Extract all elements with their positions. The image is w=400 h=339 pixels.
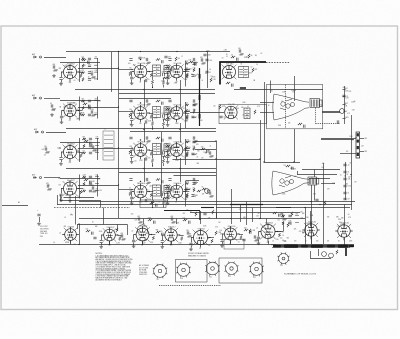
capacitor C10 bbox=[92, 145, 94, 148]
capacitor C54 bbox=[192, 104, 195, 106]
resistor R132 bbox=[150, 202, 154, 204]
svg-text:120: 120 bbox=[284, 165, 287, 167]
wire bbox=[163, 85, 165, 88]
svg-text:100: 100 bbox=[129, 109, 132, 111]
heavy bus segment bbox=[164, 210, 200, 212]
svg-text:.01: .01 bbox=[348, 214, 350, 216]
svg-text:05: 05 bbox=[64, 217, 66, 219]
resistor R4 bbox=[47, 188, 52, 190]
vacuum tube V11 (6AU6) bbox=[132, 183, 150, 201]
resistor R44 bbox=[150, 115, 152, 119]
ground bbox=[130, 123, 134, 126]
wire bbox=[133, 235, 135, 240]
wire bbox=[322, 112, 340, 114]
junction bbox=[304, 207, 305, 208]
wire tuner rail bbox=[60, 100, 100, 102]
junction bbox=[168, 69, 169, 70]
wire bbox=[119, 98, 171, 100]
capacitor C51 bbox=[161, 102, 163, 105]
wire bbox=[185, 181, 187, 207]
wire bbox=[322, 111, 340, 113]
svg-text:05: 05 bbox=[226, 56, 228, 58]
svg-text:68K: 68K bbox=[351, 139, 354, 141]
wire bbox=[310, 251, 312, 258]
svg-text:100: 100 bbox=[294, 176, 297, 178]
vacuum tube V12 (6AU6) bbox=[168, 183, 186, 201]
wire bbox=[54, 207, 130, 209]
wire bbox=[216, 159, 260, 161]
wire bbox=[318, 249, 320, 256]
svg-text:56: 56 bbox=[226, 54, 228, 56]
junction bbox=[78, 71, 79, 72]
coil L3 bbox=[94, 71, 98, 74]
resistor R87 bbox=[189, 61, 193, 63]
wire bbox=[184, 111, 190, 113]
capacitor C132 bbox=[37, 214, 40, 216]
junction bbox=[149, 191, 150, 192]
wire bbox=[75, 89, 215, 91]
wire bbox=[184, 148, 190, 150]
wire bbox=[152, 163, 154, 166]
wire tuner bus bbox=[79, 138, 81, 162]
resistor R14 bbox=[79, 112, 81, 116]
wire bbox=[66, 51, 230, 53]
ground bbox=[130, 82, 134, 85]
svg-text:220K: 220K bbox=[154, 118, 157, 120]
capacitor C108 bbox=[288, 222, 291, 224]
svg-text:V8: V8 bbox=[174, 105, 176, 107]
wire bbox=[131, 192, 133, 197]
resistor R109 bbox=[324, 201, 326, 205]
capacitor C80 bbox=[192, 183, 195, 185]
capacitor C27 bbox=[89, 176, 92, 178]
svg-text:.047: .047 bbox=[143, 243, 146, 245]
capacitor C7 bbox=[88, 105, 90, 108]
capacitor C94 bbox=[209, 151, 211, 154]
CRT1 base with pins bbox=[310, 99, 322, 108]
svg-text:47K: 47K bbox=[178, 72, 181, 74]
wire tuner rail bbox=[60, 178, 100, 180]
svg-text:47K: 47K bbox=[347, 113, 350, 115]
coil L24 bbox=[185, 147, 189, 150]
wire bbox=[283, 222, 285, 232]
capacitor C129 bbox=[188, 221, 190, 224]
junction bbox=[185, 112, 186, 113]
resistor R52 bbox=[162, 122, 164, 126]
capacitor C93 bbox=[206, 150, 208, 153]
svg-text:.01: .01 bbox=[207, 238, 209, 240]
resistor R38 bbox=[162, 80, 164, 85]
capacitor C66 bbox=[193, 136, 195, 139]
svg-text:470: 470 bbox=[349, 91, 352, 93]
capacitor C118 bbox=[132, 240, 135, 242]
wire bbox=[162, 243, 164, 245]
resistor R110 bbox=[86, 230, 90, 232]
svg-text:.01: .01 bbox=[97, 149, 99, 151]
wire bbox=[173, 159, 217, 161]
capacitor C86 bbox=[205, 59, 208, 61]
svg-text:.047: .047 bbox=[98, 178, 101, 180]
ground bbox=[50, 113, 54, 116]
svg-text:14KV: 14KV bbox=[345, 117, 349, 119]
svg-text:3.3K: 3.3K bbox=[244, 75, 247, 77]
svg-text:56: 56 bbox=[92, 221, 94, 223]
IF transformer T1B bbox=[164, 65, 169, 73]
ground bbox=[59, 162, 63, 165]
svg-text:V5: V5 bbox=[138, 63, 140, 65]
svg-text:56: 56 bbox=[256, 64, 258, 66]
junction bbox=[277, 231, 278, 232]
svg-text:470: 470 bbox=[268, 237, 271, 239]
wire tuner bus bbox=[79, 175, 81, 199]
pilot lamp I2 bbox=[329, 253, 334, 258]
heavy shielded lead (thick wire) bbox=[220, 62, 266, 85]
junction bbox=[179, 89, 180, 90]
capacitor C16 bbox=[59, 194, 62, 196]
resistor R103 bbox=[286, 165, 290, 167]
capacitor C48 bbox=[145, 120, 147, 123]
junction bbox=[170, 244, 171, 245]
junction bbox=[140, 59, 141, 60]
svg-text:56: 56 bbox=[348, 172, 350, 174]
resistor R117 bbox=[119, 237, 121, 241]
svg-text:150K: 150K bbox=[65, 195, 69, 197]
capacitor C84 bbox=[194, 63, 196, 66]
svg-text:.005: .005 bbox=[149, 185, 152, 187]
svg-text:V20: V20 bbox=[228, 226, 231, 228]
wire bbox=[61, 160, 63, 162]
resistor R88 bbox=[201, 62, 206, 64]
svg-text:10K: 10K bbox=[301, 217, 304, 219]
capacitor C89 bbox=[239, 49, 241, 52]
capacitor C95 bbox=[207, 190, 209, 193]
capacitor C87 bbox=[205, 71, 208, 73]
svg-text:3.3K: 3.3K bbox=[98, 101, 101, 103]
resistor R62 bbox=[166, 145, 170, 147]
svg-text:100: 100 bbox=[83, 101, 86, 103]
resistor R97 bbox=[201, 148, 205, 150]
svg-text:V17: V17 bbox=[140, 226, 143, 228]
svg-text:470: 470 bbox=[226, 78, 229, 80]
wire bbox=[149, 113, 153, 115]
resistor R50 bbox=[129, 113, 131, 117]
junction bbox=[118, 147, 119, 148]
vacuum tube V14 (6T8) bbox=[224, 105, 238, 119]
svg-text:05: 05 bbox=[88, 105, 90, 107]
svg-text:3.3K: 3.3K bbox=[348, 179, 351, 181]
ground bbox=[189, 248, 193, 251]
resistor R116 bbox=[287, 223, 289, 227]
resistor R89 bbox=[252, 68, 254, 72]
bus blob bbox=[301, 245, 308, 247]
svg-text:100: 100 bbox=[128, 63, 131, 65]
resistor R91 bbox=[239, 53, 244, 55]
svg-text:6BQ7: 6BQ7 bbox=[71, 63, 75, 65]
svg-text:56: 56 bbox=[338, 241, 340, 243]
svg-text:68K: 68K bbox=[83, 65, 86, 67]
svg-text:6W4: 6W4 bbox=[201, 228, 204, 230]
svg-text:05: 05 bbox=[209, 72, 211, 74]
resistor R7 bbox=[83, 103, 87, 105]
svg-text:10K: 10K bbox=[288, 123, 291, 125]
resistor R45 bbox=[186, 115, 188, 119]
wire bbox=[64, 197, 95, 199]
pilot lamp I1 bbox=[322, 252, 327, 257]
svg-text:.005: .005 bbox=[120, 233, 123, 235]
resistor R3 bbox=[45, 151, 50, 153]
svg-text:33K: 33K bbox=[306, 217, 309, 219]
capacitor C70 bbox=[166, 197, 169, 199]
wire tuner rail bbox=[60, 62, 100, 64]
svg-text:.02: .02 bbox=[223, 117, 225, 119]
wire bbox=[163, 205, 165, 208]
svg-text:10K: 10K bbox=[193, 146, 196, 148]
svg-text:.01: .01 bbox=[340, 174, 342, 176]
resistor R114 bbox=[215, 231, 217, 235]
wire bbox=[264, 82, 266, 162]
cable blob bbox=[199, 74, 201, 79]
capacitor C33 bbox=[171, 68, 173, 71]
capacitor C102 bbox=[343, 171, 346, 173]
svg-text:68K: 68K bbox=[83, 136, 86, 138]
svg-text:.02: .02 bbox=[231, 54, 233, 56]
vacuum tube V2 (6BZ7) bbox=[62, 103, 79, 120]
junction bbox=[185, 71, 186, 72]
svg-text:.02: .02 bbox=[247, 106, 249, 108]
heavy lead near V19 bbox=[199, 211, 201, 220]
resistor R93 bbox=[231, 56, 235, 58]
svg-text:6T8: 6T8 bbox=[232, 104, 235, 106]
resistor R54 bbox=[156, 100, 160, 102]
capacitor C109 bbox=[278, 214, 280, 217]
heavy rail segment bbox=[201, 207, 214, 209]
capacitor C79 bbox=[193, 178, 195, 181]
resistor R84 bbox=[185, 182, 189, 184]
capacitor C121 bbox=[220, 240, 223, 242]
resistor R122 bbox=[278, 233, 280, 237]
svg-text:V19: V19 bbox=[198, 228, 201, 230]
capacitor C88 bbox=[231, 84, 233, 87]
svg-text:3.3K: 3.3K bbox=[289, 220, 292, 222]
svg-text:.005: .005 bbox=[270, 232, 273, 234]
svg-text:56: 56 bbox=[53, 242, 55, 244]
svg-text:68K: 68K bbox=[336, 217, 339, 219]
resistor R124 bbox=[254, 239, 259, 241]
damper circuit box bbox=[224, 240, 244, 250]
wire bbox=[61, 72, 63, 77]
junction bbox=[149, 149, 150, 150]
junction bbox=[118, 67, 119, 68]
wire bbox=[258, 232, 260, 237]
resistor R133 bbox=[336, 250, 338, 254]
wire bbox=[44, 57, 66, 59]
resistor R26 bbox=[82, 152, 86, 154]
svg-text:.01: .01 bbox=[272, 241, 274, 243]
svg-text:6SL7: 6SL7 bbox=[172, 227, 176, 229]
junction bbox=[140, 181, 141, 182]
resistor R60 bbox=[167, 153, 169, 157]
svg-text:10K: 10K bbox=[327, 217, 330, 219]
svg-text:R82: R82 bbox=[365, 151, 368, 153]
heavy bus segment bbox=[230, 204, 263, 206]
svg-text:68K: 68K bbox=[313, 194, 316, 196]
resistor R107 bbox=[282, 218, 287, 220]
svg-text:33K: 33K bbox=[64, 226, 67, 228]
wire bbox=[61, 197, 63, 199]
terminal strip TS1 bbox=[356, 132, 360, 158]
coil L16 bbox=[185, 68, 189, 71]
svg-text:3.3K: 3.3K bbox=[150, 242, 153, 244]
wire bbox=[119, 189, 134, 191]
svg-text:47K: 47K bbox=[348, 217, 351, 219]
svg-text:56: 56 bbox=[172, 234, 174, 236]
ground bbox=[59, 199, 63, 202]
capacitor C90 bbox=[236, 58, 238, 61]
svg-text:6K6: 6K6 bbox=[71, 227, 74, 229]
wire bbox=[61, 189, 63, 194]
wire bbox=[119, 111, 134, 113]
wire bbox=[60, 195, 62, 200]
capacitor C110 bbox=[282, 214, 284, 217]
wire bbox=[309, 178, 330, 180]
capacitor C127 bbox=[153, 221, 155, 224]
capacitor C67 bbox=[192, 141, 195, 143]
capacitor C92 bbox=[219, 116, 222, 118]
resistor R33 bbox=[163, 77, 167, 79]
wire bbox=[152, 197, 154, 200]
capacitor C77 bbox=[161, 180, 163, 183]
junction bbox=[319, 204, 320, 205]
svg-text:V23: V23 bbox=[280, 265, 283, 267]
svg-text:33K: 33K bbox=[197, 150, 200, 152]
capacitor C64 bbox=[161, 139, 163, 142]
wire bbox=[111, 52, 113, 92]
ground bbox=[59, 82, 63, 85]
svg-text:6CB6: 6CB6 bbox=[177, 63, 181, 65]
svg-text:56: 56 bbox=[271, 91, 273, 93]
svg-text:33K: 33K bbox=[59, 68, 62, 70]
coil L11 bbox=[95, 175, 99, 178]
svg-text:56: 56 bbox=[163, 118, 165, 120]
resistor R21 bbox=[81, 100, 85, 102]
coil L32 bbox=[295, 214, 299, 217]
wire bbox=[185, 150, 189, 152]
vacuum tube V18 (6SL7) bbox=[162, 227, 179, 244]
svg-text:220K: 220K bbox=[186, 181, 189, 183]
vacuum tube V23 (5U4G) bbox=[335, 223, 352, 240]
junction bbox=[215, 158, 216, 159]
ground bbox=[257, 242, 261, 245]
resistor R121 bbox=[240, 236, 242, 240]
resistor R111 bbox=[121, 238, 126, 240]
svg-text:470: 470 bbox=[346, 151, 349, 153]
resistor R36 bbox=[129, 71, 131, 76]
svg-text:.01: .01 bbox=[77, 109, 79, 111]
svg-text:6CD6: 6CD6 bbox=[231, 226, 235, 228]
wire bbox=[66, 128, 216, 130]
resistor R120 bbox=[211, 239, 213, 243]
video amplifier enclosure box bbox=[219, 105, 267, 124]
capacitor C18 bbox=[88, 65, 91, 67]
svg-text:150K: 150K bbox=[186, 142, 189, 144]
resistor R2 bbox=[51, 108, 56, 110]
wire bbox=[131, 80, 133, 82]
capacitor C22 bbox=[88, 107, 91, 109]
wire bbox=[260, 112, 274, 114]
resistor R31 bbox=[186, 73, 188, 77]
IF transformer T3B bbox=[164, 144, 169, 152]
svg-text:10K: 10K bbox=[129, 146, 132, 148]
svg-text:.005: .005 bbox=[170, 216, 173, 218]
svg-text:V18: V18 bbox=[180, 278, 183, 280]
resistor R72 bbox=[150, 193, 152, 197]
vacuum tube V21 (6BQ6) bbox=[259, 223, 278, 242]
wire bbox=[185, 102, 187, 128]
svg-text:3.3K: 3.3K bbox=[175, 146, 178, 148]
svg-text:100: 100 bbox=[95, 112, 98, 114]
svg-text:56: 56 bbox=[241, 64, 243, 66]
wire bbox=[343, 96, 346, 98]
wire cathode return bbox=[268, 241, 270, 245]
svg-text:56: 56 bbox=[251, 55, 253, 57]
svg-text:L1: L1 bbox=[104, 129, 106, 131]
wire bbox=[119, 69, 134, 71]
svg-text:470: 470 bbox=[294, 241, 297, 243]
wire bbox=[264, 162, 300, 164]
svg-text:56: 56 bbox=[158, 202, 160, 204]
svg-text:33K: 33K bbox=[341, 218, 344, 220]
wire bbox=[344, 86, 346, 124]
capacitor C56 bbox=[130, 156, 133, 158]
svg-text:33K: 33K bbox=[137, 232, 140, 234]
ground bbox=[161, 245, 165, 248]
coil L13 bbox=[95, 189, 99, 192]
svg-text:10K: 10K bbox=[174, 116, 177, 118]
capacitor C73 bbox=[191, 195, 194, 197]
svg-text:100: 100 bbox=[238, 48, 241, 50]
svg-text:V18: V18 bbox=[168, 227, 171, 229]
capacitor C91 bbox=[203, 54, 206, 56]
junction bbox=[215, 140, 216, 141]
svg-text:150K: 150K bbox=[349, 136, 352, 138]
coil L28 bbox=[185, 188, 189, 191]
capacitor C122 bbox=[257, 237, 260, 239]
wire tuner bus bbox=[79, 58, 81, 82]
resistor R64 bbox=[129, 150, 131, 154]
resistor R42 bbox=[185, 62, 189, 64]
wire cathode return bbox=[142, 241, 144, 245]
svg-text:120: 120 bbox=[160, 231, 163, 233]
svg-text:6CB6: 6CB6 bbox=[141, 63, 145, 65]
svg-text:.02: .02 bbox=[68, 67, 70, 69]
svg-text:05: 05 bbox=[180, 142, 182, 144]
junction bbox=[168, 147, 169, 148]
wire bbox=[343, 118, 346, 120]
svg-text:470: 470 bbox=[239, 209, 242, 211]
wire bbox=[343, 89, 346, 91]
svg-text:150K: 150K bbox=[148, 121, 152, 123]
svg-text:.02: .02 bbox=[132, 197, 134, 199]
capacitor C12 bbox=[92, 186, 94, 189]
wire bbox=[60, 200, 100, 202]
wire grid feed bbox=[176, 219, 178, 225]
resistor R131 bbox=[212, 210, 214, 214]
wire bbox=[144, 158, 146, 182]
junction bbox=[209, 237, 210, 238]
wire bbox=[285, 85, 287, 129]
svg-text:10K: 10K bbox=[186, 194, 189, 196]
bus blob bbox=[311, 245, 323, 248]
